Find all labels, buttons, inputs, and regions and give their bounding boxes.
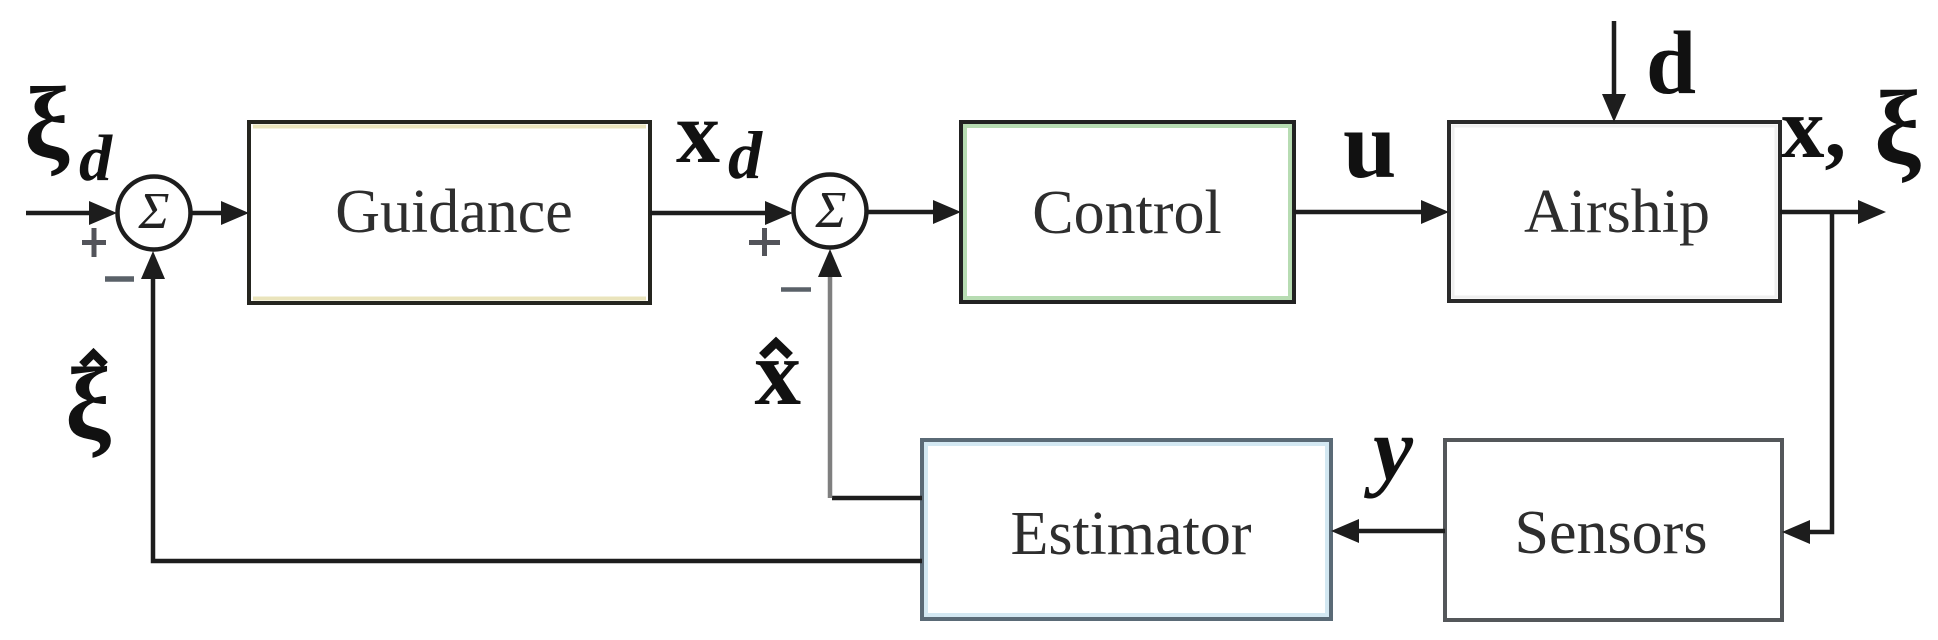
- block Control: [961, 122, 1294, 302]
- wire Control to Airship: [1294, 200, 1449, 224]
- block Guidance: [249, 122, 650, 303]
- label x_d: [676, 85, 763, 193]
- svg-text:d: d: [79, 122, 113, 195]
- label xi-hat: [65, 347, 111, 461]
- label d: [1646, 14, 1696, 113]
- block Estimator: [922, 440, 1331, 619]
- svg-text:u: u: [1343, 91, 1396, 198]
- svg-text:Airship: Airship: [1524, 178, 1710, 246]
- svg-text:d: d: [728, 117, 763, 193]
- label x, xi (output): [1781, 69, 1921, 186]
- wire S2 to Control: [867, 200, 961, 224]
- svg-text:Sensors: Sensors: [1515, 499, 1708, 567]
- svg-text:ξ: ξ: [1874, 69, 1921, 186]
- wire Guidance to S2: [650, 201, 793, 225]
- wire Sensors to Estimator: [1331, 519, 1445, 543]
- label u: [1343, 91, 1396, 198]
- wire Estimator to S1 (xi-hat): [141, 251, 922, 561]
- sign minus S1: [105, 276, 134, 282]
- wire Airship output: [1780, 200, 1886, 224]
- block Airship: [1449, 122, 1780, 301]
- svg-text:ξ: ξ: [24, 67, 70, 180]
- label xi_d: [24, 67, 113, 195]
- wire disturbance d into Airship: [1602, 21, 1626, 122]
- label x-hat: [755, 322, 802, 425]
- wire S1 to Guidance: [191, 201, 249, 225]
- svg-text:x: x: [676, 85, 720, 182]
- svg-text:x,: x,: [1781, 79, 1846, 176]
- svg-text:Control: Control: [1032, 179, 1221, 247]
- block Sensors: [1445, 440, 1782, 620]
- summing junction S2: [794, 175, 867, 248]
- wire output branch down to Sensors: [1782, 212, 1832, 544]
- svg-text:d: d: [1646, 14, 1696, 113]
- summing junction S1: [118, 177, 191, 250]
- svg-text:Σ: Σ: [815, 182, 847, 239]
- wire input to S1: [26, 201, 117, 225]
- label y: [1363, 400, 1414, 499]
- wire Estimator to S2 (x-hat): [818, 249, 922, 498]
- svg-text:Estimator: Estimator: [1010, 500, 1251, 568]
- svg-text:Σ: Σ: [138, 183, 170, 240]
- sign plus S1: [82, 228, 106, 257]
- sign plus S2: [749, 228, 780, 256]
- svg-text:x: x: [755, 322, 802, 425]
- sign minus S2: [781, 287, 811, 292]
- svg-text:Guidance: Guidance: [335, 178, 573, 246]
